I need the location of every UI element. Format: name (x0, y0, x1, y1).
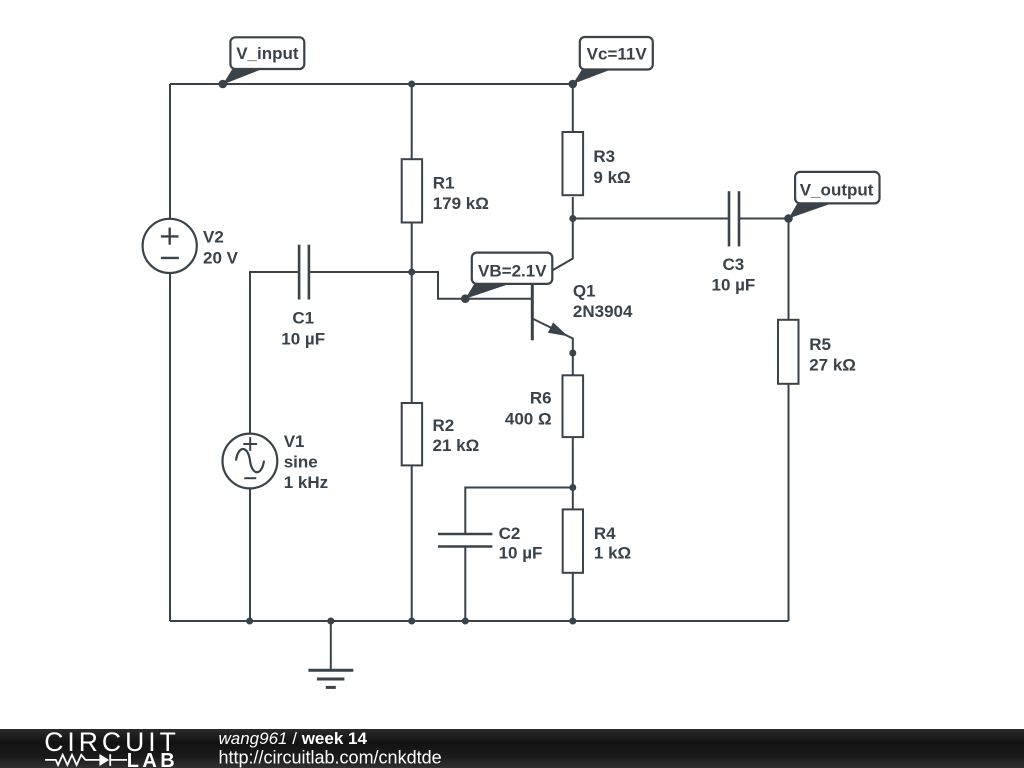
wire R5 bottom to ground rail (788, 384, 790, 621)
label Q1 value (573, 281, 633, 321)
wire V2 bottom to ground rail (169, 273, 171, 621)
resistor R2 (402, 403, 422, 465)
wire emitter node to R6 (572, 353, 574, 375)
wire Vc node down to R3 (572, 84, 574, 132)
svg-text:20 V: 20 V (203, 249, 239, 268)
wire R4 bottom to ground rail (572, 573, 574, 621)
svg-text:C2: C2 (499, 524, 521, 543)
logo resistor-diode drawing (45, 754, 127, 766)
node dot Vc (569, 80, 578, 89)
label C1 value (281, 308, 325, 348)
svg-text:R3: R3 (593, 147, 615, 166)
label R5 value (809, 335, 856, 375)
svg-text:LAB: LAB (127, 750, 178, 768)
node dot V1 ground (246, 618, 253, 625)
wire R3 bottom to collector node (572, 197, 574, 219)
svg-text:10 µF: 10 µF (499, 543, 543, 562)
svg-text:V1: V1 (284, 432, 305, 451)
node dot C2 ground (462, 618, 469, 625)
svg-text:1 kHz: 1 kHz (284, 473, 328, 492)
transistor Q1 (532, 285, 568, 341)
svg-text:wang961 / week 14: wang961 / week 14 (219, 729, 368, 748)
svg-text:R5: R5 (809, 335, 831, 354)
svg-text:http://circuitlab.com/cnkdtde: http://circuitlab.com/cnkdtde (219, 748, 442, 768)
svg-text:V_input: V_input (236, 44, 299, 63)
resistor R5 (778, 320, 799, 384)
svg-text:V2: V2 (203, 228, 224, 247)
capacitor C3 (729, 191, 739, 246)
wire V1 bottom to ground rail (249, 489, 251, 621)
svg-text:9 kΩ: 9 kΩ (593, 168, 630, 187)
wire R1 bottom to R2 top through node (411, 223, 413, 404)
label R4 value (594, 524, 631, 562)
node dot R4 ground (569, 618, 576, 625)
flag V_input (223, 37, 304, 84)
resistor R1 (402, 159, 422, 222)
node dot V_input (219, 80, 228, 89)
node dot divider junction (408, 269, 415, 276)
wire R2 bottom to ground rail (411, 465, 413, 621)
svg-text:R6: R6 (530, 389, 552, 408)
flag VB=2.1V (465, 253, 552, 299)
svg-text:Q1: Q1 (573, 281, 596, 300)
label C3 value (711, 255, 755, 295)
wire bottom ground rail (170, 620, 789, 622)
node dot emitter (569, 350, 576, 357)
label C2 value (499, 524, 543, 562)
wire Q1 collector lead (532, 219, 573, 283)
svg-text:10 µF: 10 µF (281, 330, 325, 349)
svg-text:2N3904: 2N3904 (573, 302, 633, 321)
svg-text:179 kΩ: 179 kΩ (433, 194, 489, 213)
node dot top rail / R1 (408, 81, 415, 88)
wire Q1 emitter lead (532, 319, 573, 354)
ground (308, 670, 353, 687)
resistor R3 (563, 132, 584, 195)
svg-text:400 Ω: 400 Ω (505, 409, 552, 428)
logo diode triangle (99, 754, 109, 766)
svg-text:R4: R4 (594, 524, 616, 543)
label R2 value (433, 416, 480, 455)
svg-text:10 µF: 10 µF (711, 276, 755, 295)
label R3 value (593, 147, 630, 187)
capacitor C1 (299, 245, 309, 300)
wire top rail V_input to Vc node (170, 83, 573, 85)
svg-text:V_output: V_output (800, 180, 874, 199)
node dot VB base (461, 294, 470, 303)
svg-text:sine: sine (284, 453, 318, 472)
wire top rail down to R1 (411, 84, 413, 159)
node dot ground stem (327, 618, 334, 625)
flag V_output (789, 172, 880, 219)
wire C2 bottom to ground rail (464, 547, 466, 622)
svg-text:VB=2.1V: VB=2.1V (478, 261, 547, 280)
node dot R2 ground (408, 618, 415, 625)
voltage source V1 (sine) (223, 434, 278, 489)
svg-text:R2: R2 (433, 416, 455, 435)
wire C1 right plate to divider node (309, 271, 412, 273)
wire ground stem (330, 621, 332, 670)
wire V1 top to C1 left plate (250, 272, 299, 435)
wire collector node to C3 left plate (573, 218, 729, 220)
flag Vc=11V (573, 37, 653, 84)
wire R6 bottom to R4 top node (572, 437, 574, 509)
resistor R4 (563, 509, 583, 572)
resistor R6 (563, 375, 584, 437)
wire emitter-R4 node to C2 top (465, 488, 573, 535)
wire divider node to Q1 base (412, 272, 533, 299)
svg-text:C1: C1 (292, 308, 314, 327)
svg-text:Vc=11V: Vc=11V (587, 44, 648, 63)
wire left rail from top to V2 (169, 84, 171, 219)
svg-text:1 kΩ: 1 kΩ (594, 543, 631, 562)
label R6 value (505, 389, 552, 429)
capacitor C2 (438, 534, 492, 547)
wire C3 right plate to V_output node (739, 218, 789, 220)
wire V_output node down to R5 (788, 219, 790, 320)
label V1 value (284, 432, 328, 492)
node dot R6-R4-C2 junction (569, 484, 576, 491)
node dot V_output (784, 214, 793, 223)
voltage source V2 (143, 219, 197, 273)
svg-text:R1: R1 (433, 174, 455, 193)
svg-text:27 kΩ: 27 kΩ (809, 356, 856, 375)
label V2 value (203, 228, 239, 268)
svg-text:C3: C3 (723, 255, 745, 274)
label R1 value (433, 174, 489, 214)
svg-text:21 kΩ: 21 kΩ (433, 436, 480, 455)
node dot collector junction (569, 215, 576, 222)
